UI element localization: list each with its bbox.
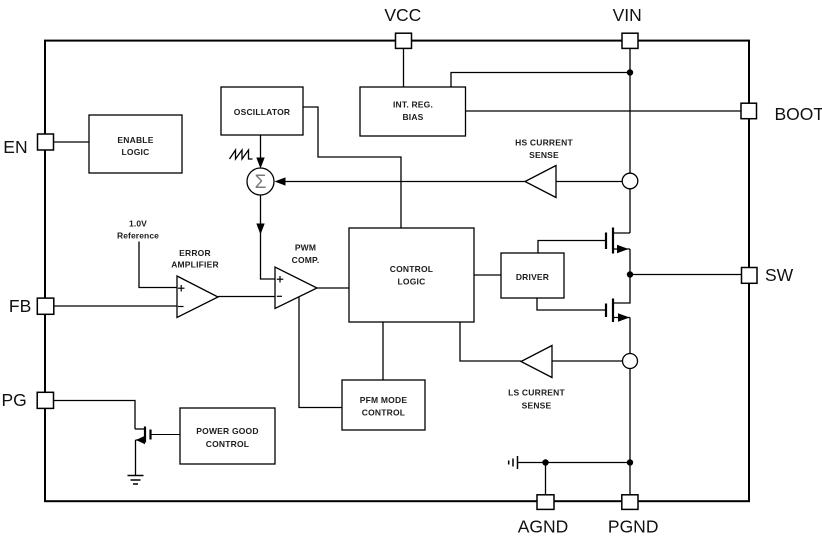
wire INT. REG. BIAS top to VIN rail	[451, 73, 630, 88]
label PGND	[608, 517, 659, 537]
svg-text:PFM MODE: PFM MODE	[360, 395, 408, 405]
transistor PG FET	[135, 427, 151, 445]
pin PGND	[622, 495, 638, 510]
label VCC	[384, 5, 421, 25]
block DRIVER	[501, 253, 564, 298]
pin PG	[37, 392, 53, 408]
junction PGND bus	[627, 459, 633, 465]
junction SW node	[627, 271, 633, 277]
svg-text:ENABLE: ENABLE	[117, 135, 153, 145]
pin SW	[742, 268, 758, 284]
svg-text:DRIVER: DRIVER	[516, 272, 549, 282]
wire PG pin to PG FET drain	[54, 401, 135, 430]
svg-text:Σ: Σ	[255, 172, 267, 193]
svg-text:ERROR: ERROR	[179, 248, 211, 258]
svg-text:AGND: AGND	[518, 517, 569, 537]
wire SW node to SW pin	[630, 274, 742, 276]
wire HS sense output to summing node	[275, 177, 526, 185]
svg-text:LOGIC: LOGIC	[398, 277, 426, 287]
svg-text:BIAS: BIAS	[402, 112, 423, 122]
pin BOOT	[741, 103, 757, 119]
wire PWM comparator to PFM MODE CONTROL	[299, 297, 342, 408]
svg-text:SENSE: SENSE	[529, 150, 559, 160]
junction AGND bus	[542, 459, 548, 465]
block ENABLE LOGIC	[89, 115, 182, 173]
sawtooth waveform symbol	[230, 150, 253, 159]
wire EN pin to ENABLE LOGIC	[54, 141, 90, 143]
junction VIN / bias	[627, 69, 633, 75]
svg-text:BOOT: BOOT	[775, 104, 822, 124]
svg-text:SW: SW	[765, 265, 794, 285]
wire FB pin to error amp minus input	[54, 305, 177, 307]
svg-text:FB: FB	[9, 296, 31, 316]
pin EN	[38, 134, 54, 150]
svg-text:LS CURRENT: LS CURRENT	[508, 388, 565, 398]
summing node	[247, 168, 274, 195]
svg-text:EN: EN	[3, 137, 27, 157]
comparator PWM comp	[275, 243, 319, 309]
label FB	[9, 296, 31, 316]
op-amp error amplifier	[171, 248, 219, 318]
label EN	[3, 137, 27, 157]
wire DRIVER bottom to LS FET gate	[537, 298, 606, 310]
svg-text:PGND: PGND	[608, 517, 659, 537]
ground symbol AGND bus	[509, 456, 518, 469]
wire AGND drop to AGND pin	[545, 463, 547, 496]
wire LS FET source to LS sense circle	[613, 318, 630, 354]
wire HS FET source to SW node	[613, 249, 630, 275]
transistor LS FET	[606, 299, 630, 323]
label BOOT	[775, 104, 822, 124]
wire summing node to PWM comparator plus input	[256, 195, 275, 279]
wire DRIVER top to HS FET gate	[538, 241, 606, 254]
svg-text:Reference: Reference	[117, 231, 159, 241]
wire error amp output to PWM comparator minus input	[218, 296, 275, 298]
wire LS sense circle to PGND pin	[629, 369, 631, 496]
block INT. REG. BIAS	[360, 87, 466, 136]
svg-text:INT. REG.: INT. REG.	[393, 100, 433, 110]
svg-text:COMP.: COMP.	[292, 255, 320, 265]
wire CONTROL LOGIC to DRIVER	[474, 274, 501, 276]
wire PG FET source to ground	[135, 440, 137, 475]
wire OSCILLATOR right output to CONTROL LOGIC top	[303, 107, 401, 228]
LS current sense circle	[623, 354, 638, 369]
wire analog ground bus	[518, 462, 631, 464]
wire VIN rail upper segment	[629, 48, 631, 174]
pin VIN	[622, 33, 638, 48]
pin VCC	[396, 33, 412, 48]
wire VIN rail to HS FET drain	[629, 189, 631, 234]
HS current sense circle	[622, 173, 638, 189]
svg-text:VIN: VIN	[613, 5, 642, 25]
label VIN	[613, 5, 642, 25]
svg-text:SENSE: SENSE	[522, 401, 552, 411]
amplifier LS current sense	[508, 346, 565, 411]
svg-text:OSCILLATOR: OSCILLATOR	[234, 107, 290, 117]
block POWER GOOD CONTROL	[180, 408, 275, 464]
wire SW node to LS FET drain	[613, 275, 630, 304]
block OSCILLATOR	[221, 87, 303, 135]
block PFM MODE CONTROL	[342, 380, 425, 430]
label AGND	[518, 517, 569, 537]
label 1.0V reference	[117, 219, 159, 241]
svg-text:CONTROL: CONTROL	[390, 264, 433, 274]
transistor HS FET	[606, 228, 629, 254]
wire 1.0V reference to error amp plus input	[139, 242, 177, 288]
svg-text:LOGIC: LOGIC	[122, 147, 150, 157]
wire OSCILLATOR bottom to summing node	[256, 135, 264, 169]
block CONTROL LOGIC	[349, 228, 474, 322]
pin FB	[37, 298, 54, 314]
svg-text:POWER GOOD: POWER GOOD	[196, 426, 258, 436]
wire HS FET drain stub	[613, 232, 630, 234]
wire CONTROL LOGIC bottom to PFM MODE CONTROL top	[382, 322, 384, 380]
label PG	[2, 390, 27, 410]
wire HS sense circle to HS sense amp	[556, 181, 622, 183]
ground symbol PG FET	[128, 476, 144, 485]
wire INT. REG. BIAS to BOOT pin	[466, 110, 742, 112]
wire PG FET gate to POWER GOOD CONTROL	[151, 434, 180, 436]
label SW	[765, 265, 794, 285]
wire LS sense circle to LS sense amp	[552, 360, 623, 362]
svg-text:HS CURRENT: HS CURRENT	[515, 138, 573, 148]
svg-text:PG: PG	[2, 390, 27, 410]
svg-text:1.0V: 1.0V	[129, 219, 147, 229]
svg-text:CONTROL: CONTROL	[362, 408, 405, 418]
wire VCC pin to INT. REG. BIAS	[403, 48, 405, 87]
chip boundary	[45, 41, 749, 502]
svg-text:VCC: VCC	[384, 5, 421, 25]
svg-text:CONTROL: CONTROL	[206, 439, 249, 449]
wire LS sense amp output to CONTROL LOGIC bottom	[460, 322, 521, 361]
amplifier HS current sense	[515, 138, 573, 198]
svg-text:PWM: PWM	[295, 243, 316, 253]
pin AGND	[537, 495, 554, 510]
wire PWM comparator output to CONTROL LOGIC	[317, 287, 349, 289]
svg-text:AMPLIFIER: AMPLIFIER	[171, 260, 219, 270]
